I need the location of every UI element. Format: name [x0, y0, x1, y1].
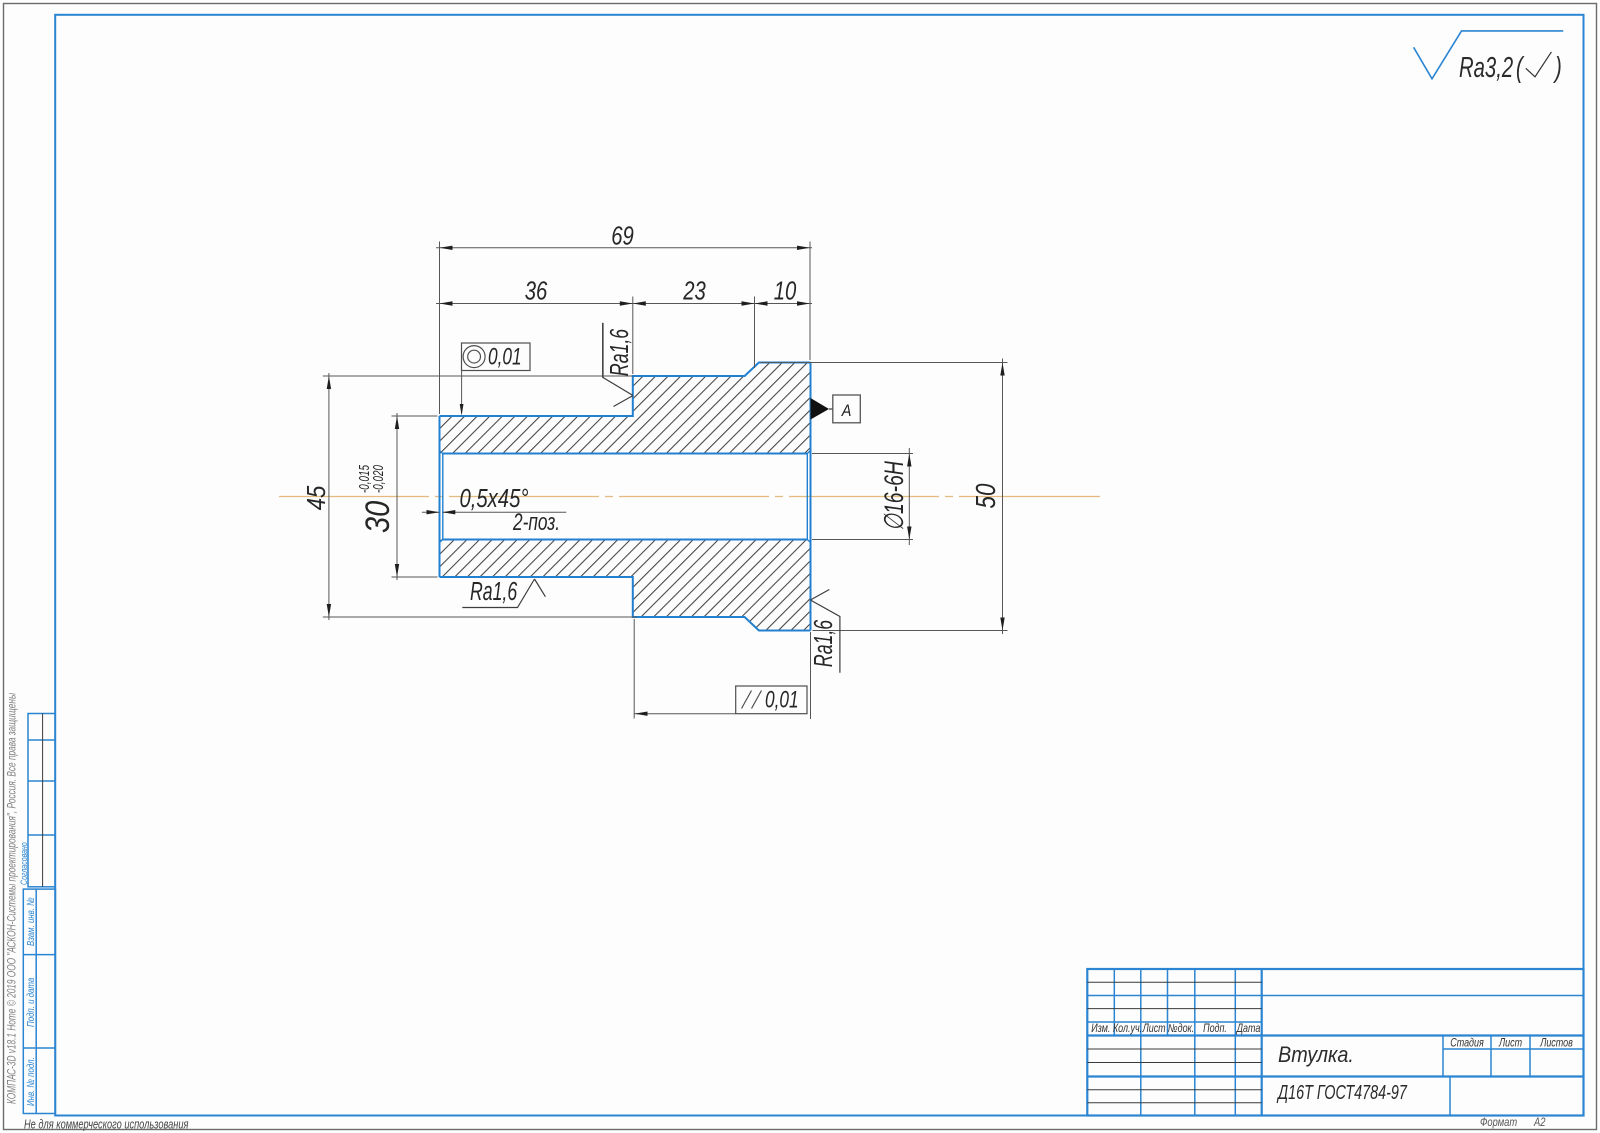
svg-text:2-поз.: 2-поз.: [512, 509, 560, 535]
svg-text:45: 45: [302, 485, 331, 510]
svg-text:23: 23: [682, 276, 705, 305]
svg-text:50: 50: [971, 484, 1002, 509]
svg-text:КОМПАС-3D v18.1 Home © 2019 ОО: КОМПАС-3D v18.1 Home © 2019 ООО "АСКОН-С…: [6, 692, 19, 1104]
svg-text:Д16Т ГОСТ4784-97: Д16Т ГОСТ4784-97: [1276, 1081, 1408, 1104]
svg-text:Дата: Дата: [1236, 1023, 1261, 1035]
svg-text:Лист: Лист: [1142, 1023, 1166, 1035]
svg-text:Лист: Лист: [1498, 1038, 1522, 1050]
svg-text:10: 10: [774, 276, 797, 305]
svg-text:А2: А2: [1533, 1116, 1545, 1129]
svg-text:Листов: Листов: [1539, 1038, 1573, 1050]
svg-text:Ra1,6: Ra1,6: [809, 619, 838, 667]
svg-text:Ra1,6: Ra1,6: [605, 328, 634, 376]
svg-text:69: 69: [611, 221, 634, 250]
svg-text:№док.: №док.: [1168, 1023, 1194, 1035]
svg-text:Ra1,6: Ra1,6: [470, 577, 518, 606]
svg-text:0,5х45°: 0,5х45°: [460, 484, 529, 513]
svg-text:0,01: 0,01: [765, 687, 799, 713]
svg-text:Втулка.: Втулка.: [1278, 1043, 1354, 1067]
svg-text:Формат: Формат: [1480, 1116, 1517, 1129]
svg-text:30: 30: [358, 500, 397, 533]
svg-text:Ra3,2: Ra3,2: [1459, 52, 1513, 84]
svg-text:Не для коммерческого использов: Не для коммерческого использования: [24, 1118, 189, 1132]
svg-text:∅16-6Н: ∅16-6Н: [879, 461, 909, 531]
svg-text:Кол.уч.: Кол.уч.: [1113, 1023, 1142, 1035]
svg-text:Инв. № подл.: Инв. № подл.: [25, 1057, 36, 1106]
svg-text:Подп. и дата: Подп. и дата: [25, 978, 36, 1027]
svg-text:Согласовано: Согласовано: [19, 842, 29, 885]
svg-text:Взам. инв. №: Взам. инв. №: [25, 897, 36, 946]
svg-text:Подп.: Подп.: [1203, 1023, 1227, 1035]
svg-text:-0,020: -0,020: [370, 465, 387, 493]
svg-text:0,01: 0,01: [488, 344, 522, 370]
svg-text:Изм.: Изм.: [1091, 1023, 1110, 1035]
svg-text:А: А: [841, 402, 852, 420]
svg-text:Стадия: Стадия: [1450, 1038, 1484, 1050]
svg-text:36: 36: [525, 276, 548, 305]
